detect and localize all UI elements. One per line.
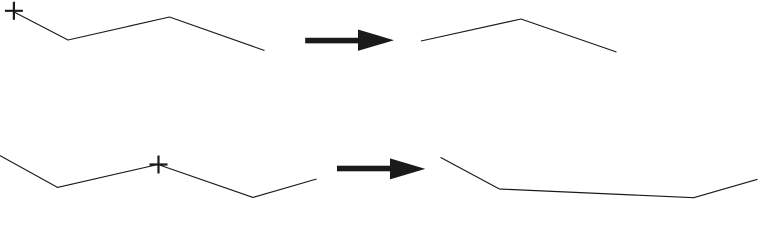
- product chain 2: [441, 157, 758, 197]
- plus marker M2: [150, 156, 168, 174]
- reactant chain 1: [15, 12, 265, 50]
- product chain 1: [421, 19, 617, 52]
- reaction arrow A2: [337, 158, 425, 179]
- reactant chain 2: [0, 156, 317, 198]
- plus marker M1: [5, 2, 23, 20]
- reaction arrow A1: [305, 30, 394, 51]
